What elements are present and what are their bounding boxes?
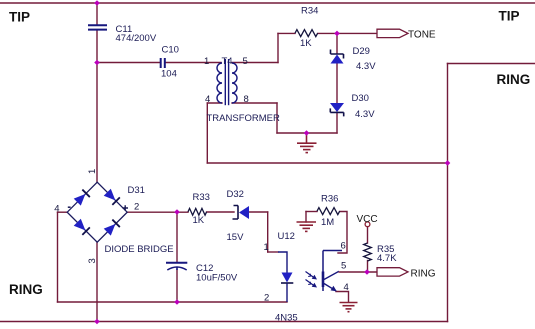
wire bottom RING rail	[0, 321, 448, 323]
ground (R36 left)	[297, 222, 317, 231]
wire opto pin 5 collector to RING port	[339, 271, 377, 273]
wire C11 top lead	[96, 3, 98, 25]
port RING (output)	[377, 268, 408, 276]
wire RING right rail	[448, 63, 535, 65]
transformer T4	[217, 59, 237, 105]
svg-text:1K: 1K	[300, 38, 312, 49]
node R33 / C12	[174, 209, 180, 215]
wire transformer pin 5 to corner	[232, 62, 278, 64]
port TONE	[377, 29, 408, 37]
svg-text:4: 4	[344, 282, 349, 293]
svg-text:TRANSFORMER: TRANSFORMER	[207, 113, 281, 124]
opto U12 phototransistor	[323, 251, 342, 292]
resistor R33	[188, 208, 207, 215]
resistor R36	[317, 208, 340, 215]
wire C12 bottom lead	[176, 270, 178, 302]
wire TIP top rail	[0, 2, 535, 4]
wire R34 left stub	[278, 32, 295, 34]
svg-text:RING: RING	[497, 72, 531, 87]
svg-text:3: 3	[87, 258, 98, 263]
zener diode D30	[330, 103, 344, 116]
wire transformer pin 4 horizontal	[207, 102, 222, 104]
wire R35 bottom lead	[367, 261, 369, 273]
svg-text:4N35: 4N35	[275, 313, 298, 324]
svg-text:4: 4	[54, 203, 59, 214]
wire D29 anode to D30	[336, 64, 338, 103]
wire bridge pin 2 to R33	[127, 211, 188, 213]
node TIP / C11	[94, 0, 100, 6]
wire right vertical bus	[447, 64, 449, 322]
node pin4 run / right bus	[445, 160, 451, 166]
wire bridge pin 4 stub	[58, 211, 68, 213]
node C11 / C10	[94, 60, 100, 66]
wire R36 right to opto pin 6	[338, 212, 347, 254]
wire secondary return to D30	[277, 132, 337, 134]
svg-text:TIP: TIP	[9, 10, 30, 25]
diode bridge D31	[67, 182, 127, 242]
wire pin 4 vertical down	[206, 103, 208, 163]
wire C11 bottom lead down to bridge pin1	[96, 30, 98, 182]
ground (opto pin 4)	[340, 303, 358, 312]
wire corner down to opto pin 1	[267, 212, 269, 252]
svg-text:8: 8	[244, 94, 249, 105]
opto light arrow 2	[306, 280, 318, 288]
node C12 / minus rail	[174, 299, 180, 305]
svg-text:5: 5	[341, 261, 346, 272]
svg-text:RING: RING	[411, 269, 436, 280]
power VCC	[365, 222, 370, 227]
svg-text:4.3V: 4.3V	[355, 109, 375, 120]
resistor R35 (vertical)	[364, 243, 372, 261]
wire C10 right lead to transformer pin 1	[166, 62, 222, 64]
svg-text:10uF/50V: 10uF/50V	[196, 273, 238, 284]
svg-text:U12: U12	[278, 231, 295, 242]
bridge diode bottom-right	[104, 220, 120, 236]
svg-text:R33: R33	[193, 192, 210, 203]
wire pin 8 vertical down	[276, 103, 278, 133]
bridge diode top-left	[74, 190, 90, 206]
wire R36 left stub	[306, 211, 317, 213]
svg-text:4.3V: 4.3V	[356, 61, 376, 72]
bridge diode top-right	[104, 189, 120, 205]
svg-text:TONE: TONE	[408, 30, 436, 41]
wire opto pin 4 emitter to ground	[336, 292, 349, 303]
svg-text:2: 2	[264, 293, 269, 304]
wire corner up to R34	[277, 33, 279, 62]
ground (transformer secondary / D30)	[297, 133, 317, 153]
svg-text:T4: T4	[222, 56, 233, 67]
svg-text:4: 4	[205, 94, 210, 105]
wire D30 bottom lead	[336, 113, 338, 134]
wire minus rail to opto pin 2	[58, 301, 288, 303]
svg-text:TIP: TIP	[499, 9, 520, 24]
wire pin 4 bottom run to right vertical	[207, 162, 447, 164]
node R35 / pin5 / RING	[364, 269, 370, 275]
wire C10 left lead	[97, 62, 160, 64]
svg-text:1M: 1M	[321, 217, 334, 228]
wire R36 left ground stub	[305, 212, 307, 223]
wire transformer pin 8 horizontal	[232, 102, 277, 104]
svg-text:474/200V: 474/200V	[116, 33, 157, 44]
node secondary ground	[304, 130, 310, 136]
capacitor C10	[161, 58, 165, 68]
wire R34 right to TONE port	[318, 32, 377, 34]
svg-text:4.7K: 4.7K	[377, 253, 397, 264]
wire opto pin 1 stub	[268, 251, 278, 253]
svg-text:D30: D30	[352, 93, 369, 104]
capacitor C11	[88, 25, 107, 29]
svg-text:RING: RING	[9, 282, 43, 297]
node bridge pin3 / RING rail	[94, 319, 100, 325]
svg-text:VCC: VCC	[357, 214, 378, 225]
wire C12 top lead	[176, 212, 178, 262]
wire R33 to D32	[207, 211, 234, 213]
svg-text:DIODE BRIDGE: DIODE BRIDGE	[105, 244, 174, 255]
wire D32 to corner	[249, 211, 268, 213]
capacitor C12	[166, 263, 187, 270]
svg-text:104: 104	[161, 69, 177, 80]
svg-text:1: 1	[264, 242, 269, 253]
opto U12 LED	[278, 252, 293, 302]
svg-text:D29: D29	[353, 46, 370, 57]
svg-text:R36: R36	[321, 194, 338, 205]
wire bridge pin 3 down to RING rail	[96, 242, 98, 321]
zener diode D29	[331, 50, 344, 64]
resistor R34	[295, 30, 318, 37]
svg-text:D31: D31	[128, 185, 145, 196]
svg-text:1K: 1K	[193, 215, 205, 226]
wire VCC lead	[367, 227, 369, 243]
svg-text:R34: R34	[301, 6, 318, 17]
minus mark bridge	[68, 206, 71, 208]
svg-text:2: 2	[134, 202, 139, 213]
svg-text:5: 5	[243, 56, 248, 67]
plus mark bridge	[123, 205, 129, 211]
svg-text:1: 1	[204, 56, 209, 67]
wire D29 top lead	[336, 33, 338, 53]
opto light arrow 1	[306, 272, 318, 280]
svg-text:D32: D32	[227, 189, 244, 200]
wire bridge minus vertical	[57, 212, 59, 302]
svg-text:15V: 15V	[227, 232, 245, 243]
node R34 / D29 / TONE	[334, 31, 340, 37]
bridge diode bottom-left	[74, 219, 90, 235]
svg-text:6: 6	[341, 241, 346, 252]
svg-text:C10: C10	[162, 45, 179, 56]
zener diode D32	[233, 206, 250, 220]
svg-text:1: 1	[87, 169, 98, 174]
